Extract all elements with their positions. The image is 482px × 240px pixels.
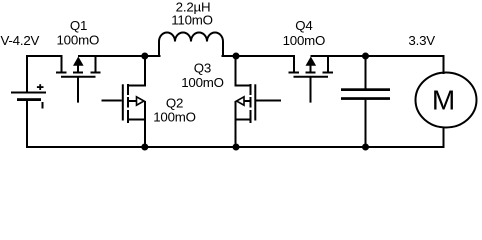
svg-text:100mO: 100mO [283,33,326,48]
svg-text:100mO: 100mO [181,75,224,90]
svg-text:100mO: 100mO [56,33,99,48]
svg-text:Q3: Q3 [194,60,211,75]
svg-text:Q1: Q1 [70,18,87,33]
svg-text:100mO: 100mO [153,110,196,125]
svg-text:M: M [432,85,455,116]
svg-text:110mO: 110mO [171,13,213,28]
svg-text:Q2: Q2 [166,96,183,111]
svg-text:3.3V: 3.3V [408,33,435,48]
svg-text:V-4.2V: V-4.2V [1,33,40,48]
svg-text:Q4: Q4 [295,18,312,33]
